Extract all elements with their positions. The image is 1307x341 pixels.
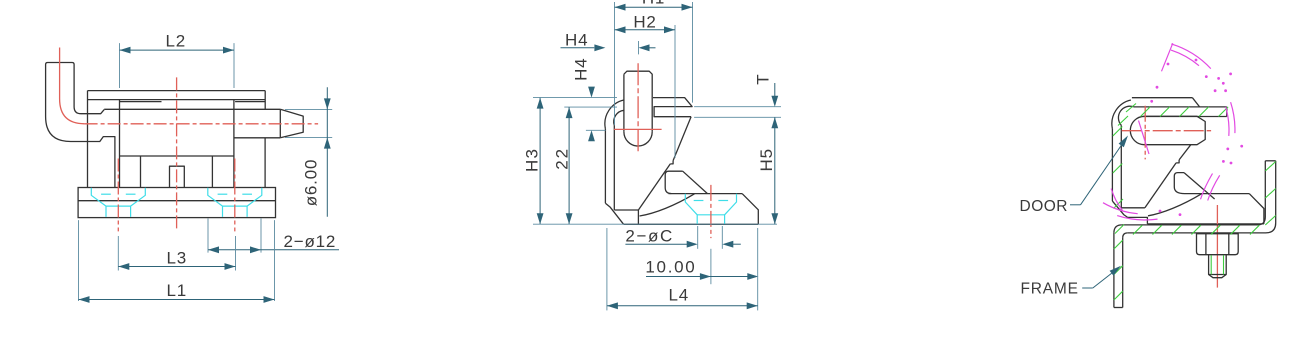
svg-text:2−øC: 2−øC (625, 227, 673, 246)
tube bent red centerline (60, 48, 85, 124)
inner concave arc (640, 194, 695, 216)
svg-text:H1: H1 (642, 0, 665, 8)
frame sheet (1122, 161, 1265, 225)
dimension H1 (top, clipped) (614, 2, 616, 125)
dimension L1 (78, 220, 80, 301)
base right chamfer (1249, 194, 1264, 224)
center tab (170, 166, 185, 187)
left face inner (right view) (1120, 125, 1122, 211)
plate right end (653, 98, 692, 117)
svg-text:L3: L3 (167, 248, 188, 267)
dimension H4 vertical (left) (586, 129, 606, 131)
frame left corner fillets (1114, 225, 1122, 233)
base top line (669, 193, 743, 195)
dimension H2 (674, 25, 676, 158)
hinge pin (624, 71, 652, 132)
green hatch: frame left leg (1114, 240, 1123, 249)
leaf inner bend arc (614, 110, 624, 125)
main block left edge (119, 100, 121, 188)
green hatch: frame strip (1133, 225, 1142, 234)
top plate (88, 90, 266, 92)
svg-text:10.00: 10.00 (645, 258, 696, 277)
door sheet top line (1134, 106, 1227, 108)
top plate left edge (87, 91, 89, 188)
svg-text:ø6.00: ø6.00 (301, 159, 320, 206)
barrel bottom line (234, 137, 280, 139)
svg-text:L2: L2 (166, 31, 187, 50)
inner wedge (665, 171, 683, 193)
dimension H3 (533, 97, 617, 99)
inner wedge (right view) (1174, 173, 1184, 194)
green hatch: leaf/door bend corner (1113, 127, 1123, 137)
svg-text:2−ø12: 2−ø12 (284, 232, 337, 251)
svg-text:DOOR: DOOR (1020, 198, 1069, 215)
dimension H4 horizontal (top) (638, 41, 640, 54)
svg-text:H4: H4 (571, 58, 590, 81)
main block right edge (233, 100, 235, 188)
magenta swung door edge lines (1201, 174, 1213, 200)
relief step (right view) (1176, 160, 1179, 163)
left face inner (613, 125, 615, 210)
red pin centerline (637, 63, 639, 152)
left face outer (right view) (1111, 129, 1113, 201)
inner concave arc (right view) (1148, 194, 1202, 216)
base top line (right view) (1185, 193, 1250, 195)
dimension L2 (119, 43, 121, 88)
svg-text:H4: H4 (565, 30, 588, 49)
upper diagonal (right view) (1179, 145, 1191, 160)
long diagonal (638, 164, 670, 210)
magenta tick through knuckle (1139, 121, 1150, 155)
svg-text:L4: L4 (669, 286, 690, 305)
top plate right edge (264, 91, 266, 110)
dimension diameter 6.00 (rotated) (285, 108, 332, 110)
magenta dots (1156, 86, 1159, 89)
red base hole centerline (710, 185, 712, 238)
main block bottom (120, 155, 234, 157)
bent tube (hinge pin handle) outline (46, 63, 105, 114)
pin slot U bottom (624, 132, 652, 146)
green hatch: frame right bend (1265, 162, 1275, 172)
svg-text:22: 22 (553, 147, 572, 170)
wedge hypotenuse (right view) (1184, 173, 1215, 199)
dimension L4 (606, 228, 608, 310)
red centerlines: barrel axis (85, 123, 319, 125)
countersunk holes (cyan) (91, 188, 106, 217)
base plate (78, 188, 275, 218)
bottom edge (right view) (1147, 223, 1264, 225)
door sheet bottom line (1143, 116, 1227, 118)
red centerline vertical center (176, 77, 178, 231)
dimension 2-dia12 (207, 219, 209, 253)
foot chamfer (605, 203, 623, 224)
svg-text:H2: H2 (633, 12, 656, 31)
frame left leg (1113, 233, 1115, 308)
magenta phantom swing arcs (1171, 44, 1211, 69)
ledge (614, 209, 638, 211)
knuckle capsule (1130, 116, 1205, 144)
svg-text:H3: H3 (523, 148, 542, 172)
svg-text:FRAME: FRAME (1021, 281, 1079, 298)
left face outer (604, 129, 606, 204)
door sheet right edge (1226, 107, 1228, 117)
leaf top plate (1132, 97, 1193, 99)
svg-text:L1: L1 (167, 281, 188, 300)
dimension T (694, 106, 781, 108)
dimension 2-phiC (697, 226, 699, 249)
hex nut (1197, 234, 1239, 255)
barrel top line (104, 108, 280, 110)
dimension H5 (774, 117, 776, 224)
dimension L3 (117, 236, 119, 271)
magenta radial tick top (1162, 43, 1173, 71)
svg-text:T: T (754, 74, 773, 85)
dimension 10.00 (710, 249, 712, 284)
legs under block (140, 156, 142, 188)
green hatch: door strip (1141, 107, 1151, 117)
shared bottom extension line (533, 223, 777, 225)
right block edge (264, 138, 266, 188)
base plate mid line (78, 200, 275, 202)
upper diagonal (673, 117, 691, 161)
bottom edge (624, 223, 759, 225)
relief step (670, 161, 673, 164)
svg-text:H5: H5 (757, 148, 776, 171)
wedge hypotenuse (683, 171, 708, 193)
red bolt centerline (1216, 205, 1218, 288)
countersink cyan, middle view (685, 194, 697, 224)
base right edge (742, 194, 758, 225)
long diagonal (right view) (1145, 163, 1176, 208)
leaf outer bend arc (605, 100, 624, 129)
pin cone tip (280, 109, 303, 138)
leaf outer bend arc (right view) (1112, 100, 1131, 129)
red knuckle centerlines (1122, 130, 1211, 132)
thread lines (green) (1210, 255, 1212, 274)
ledge (right view) (1122, 207, 1145, 209)
leaf inner bend arc (right view) (1118, 106, 1133, 125)
red pin cross line (614, 128, 662, 130)
red hole centerlines (117, 159, 119, 232)
dimension 22 (564, 106, 617, 108)
bolt shank with chamfered tip (1209, 255, 1227, 278)
foot chamfer (right view) (1112, 201, 1147, 224)
